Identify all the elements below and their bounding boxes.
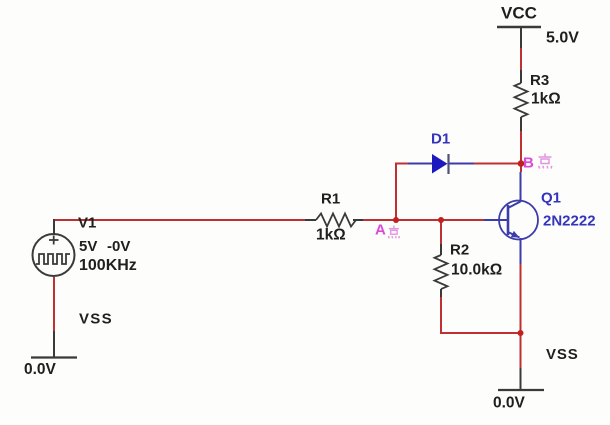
svg-text:R1: R1	[321, 191, 340, 208]
svg-text:VCC: VCC	[501, 4, 537, 23]
svg-text:2N2222: 2N2222	[543, 213, 596, 230]
svg-text:VSS: VSS	[79, 311, 113, 328]
svg-text:D1: D1	[431, 131, 450, 148]
svg-text:VSS: VSS	[546, 346, 579, 363]
svg-text:Q1: Q1	[541, 190, 561, 207]
svg-text:1kΩ: 1kΩ	[316, 227, 346, 244]
svg-text:R2: R2	[450, 242, 469, 259]
svg-text:A: A	[375, 222, 386, 239]
svg-text:100KHz: 100KHz	[79, 257, 137, 274]
svg-text:10.0kΩ: 10.0kΩ	[451, 262, 502, 279]
svg-text:V1: V1	[78, 215, 96, 232]
svg-text:5V: 5V	[79, 238, 97, 255]
svg-text:B: B	[523, 155, 534, 172]
svg-text:1kΩ: 1kΩ	[531, 91, 561, 108]
svg-text:-0V: -0V	[107, 238, 130, 255]
svg-text:5.0V: 5.0V	[546, 30, 579, 47]
svg-text:R3: R3	[530, 72, 549, 89]
svg-text:0.0V: 0.0V	[493, 395, 526, 412]
svg-text:0.0V: 0.0V	[24, 361, 57, 378]
